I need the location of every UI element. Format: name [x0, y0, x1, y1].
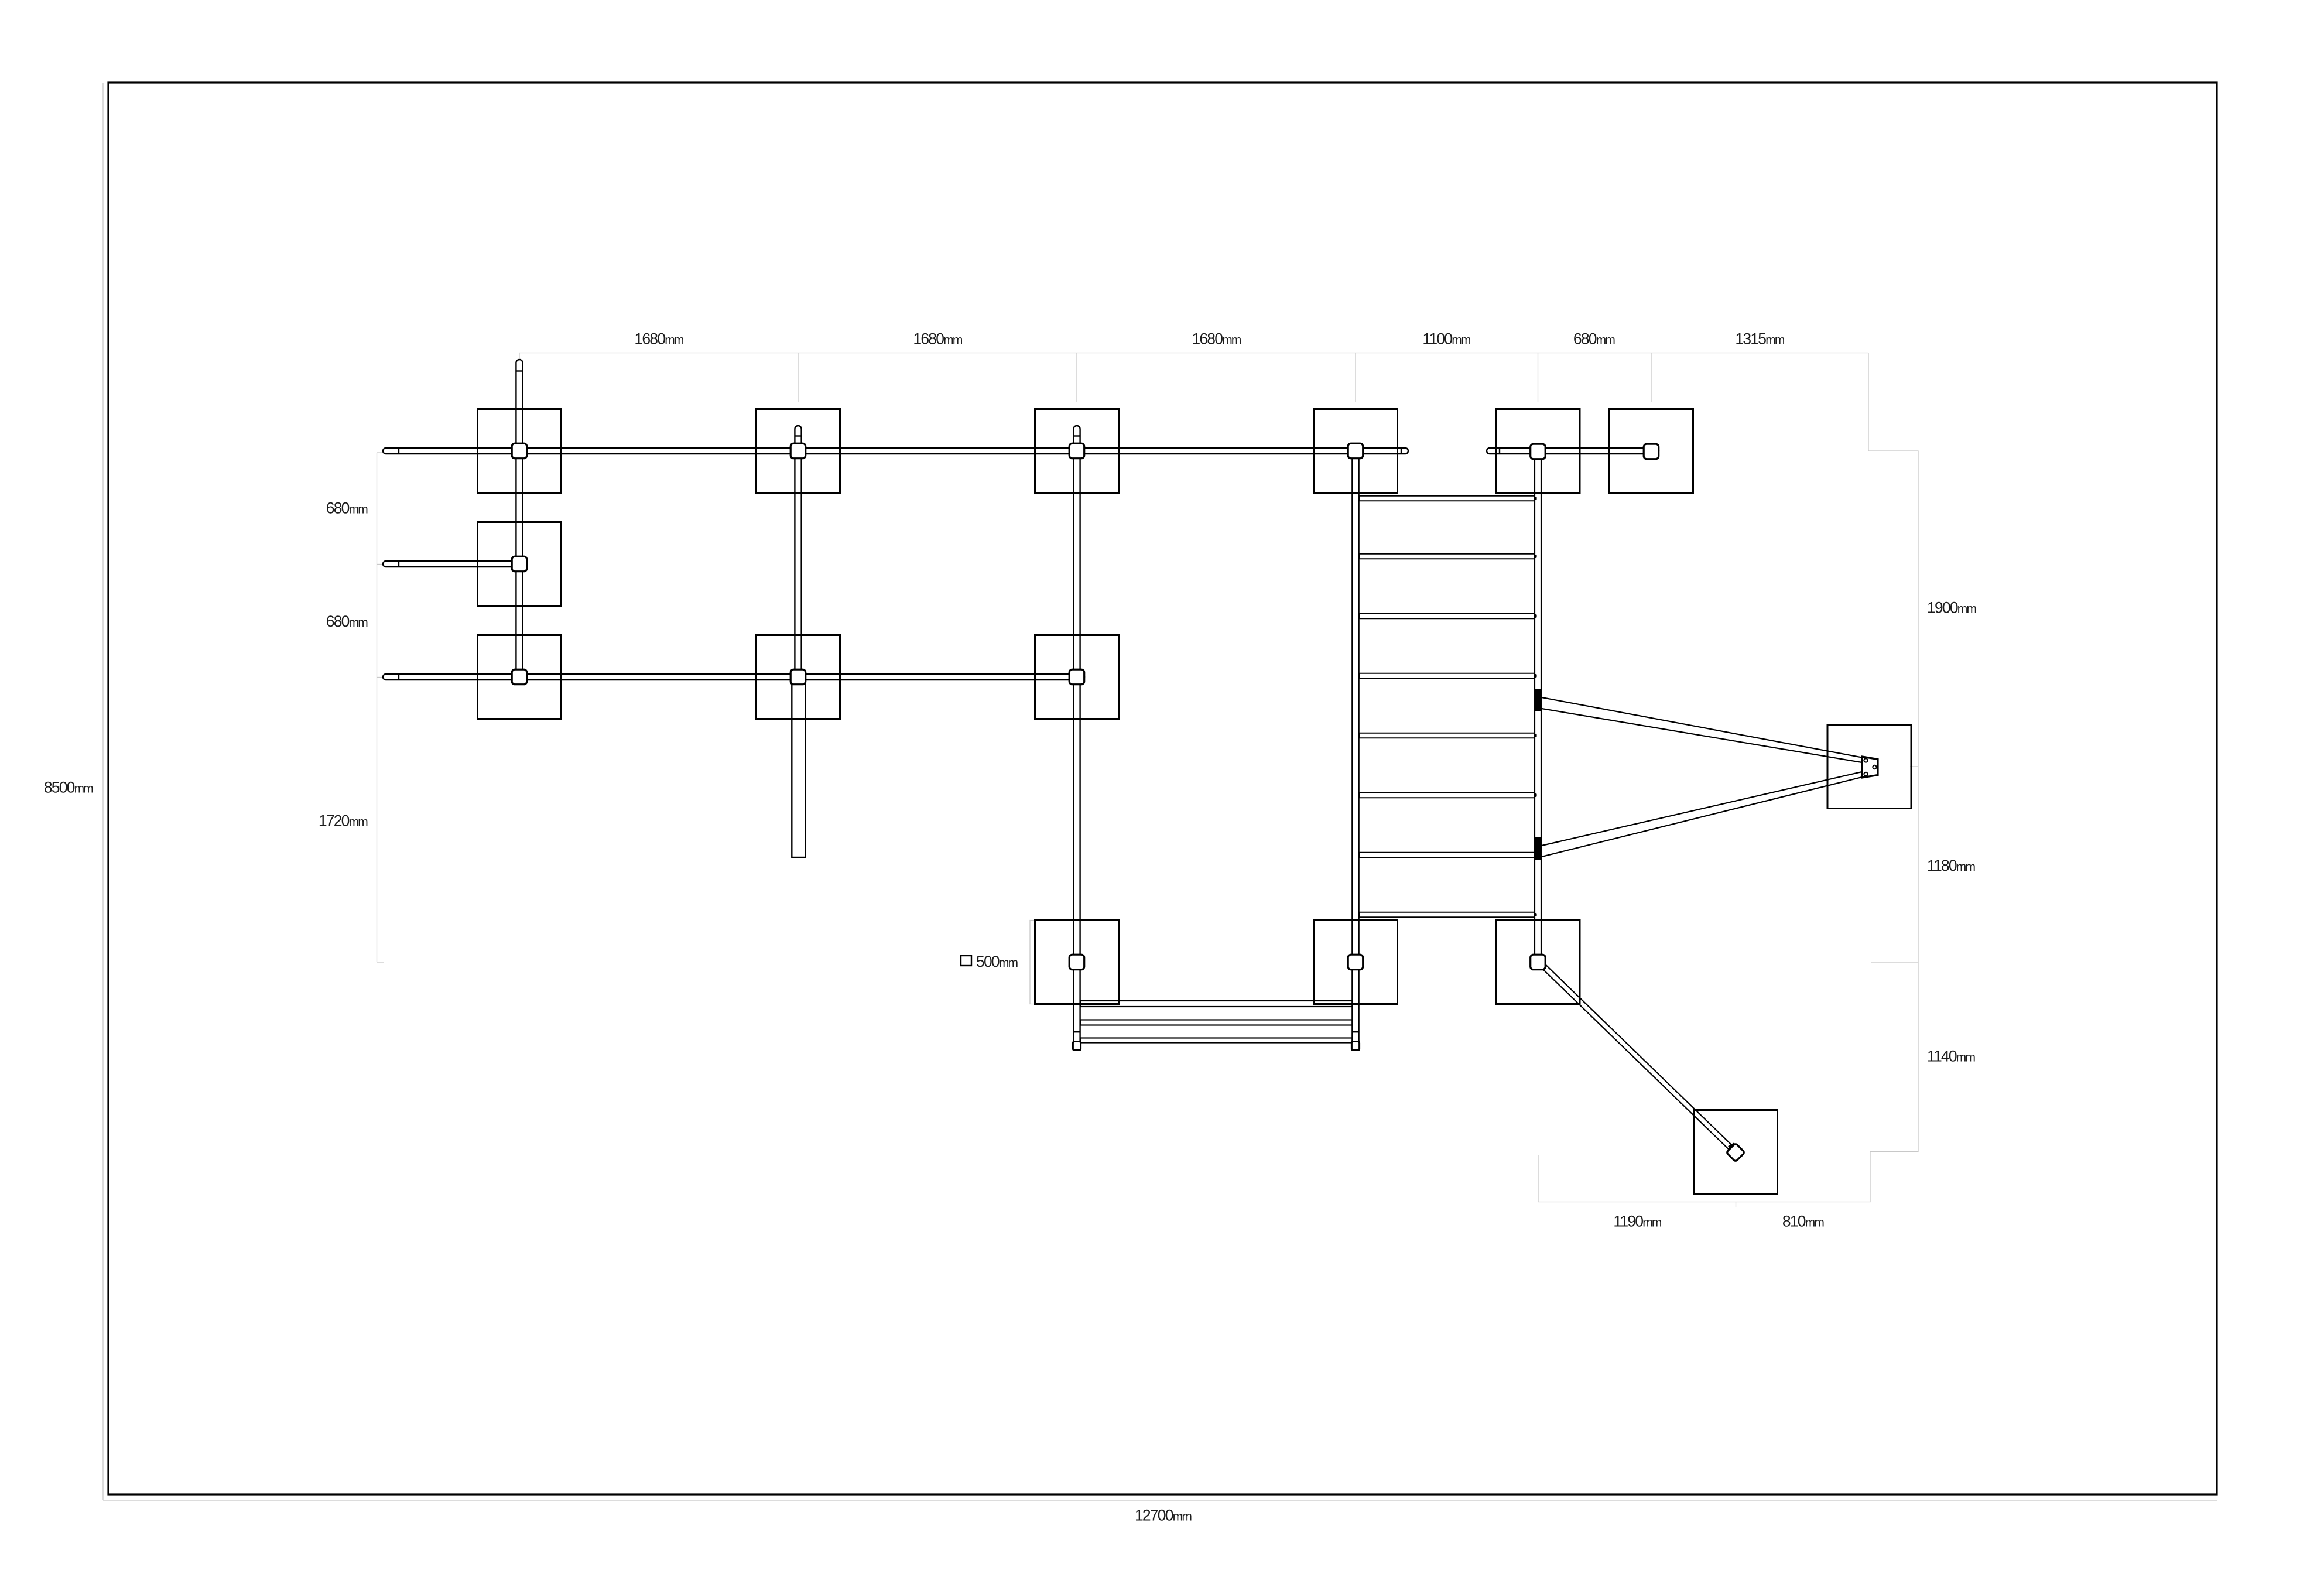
rung 2 end nub — [1535, 555, 1536, 558]
post E — [1531, 444, 1546, 459]
top tick col2 — [798, 353, 799, 403]
rung 3 end nub — [1535, 614, 1536, 618]
rung 1 end nub — [1535, 497, 1536, 500]
rail row1 right run — [1487, 448, 1659, 454]
seam row1 right cap — [1401, 448, 1402, 454]
post F — [1644, 444, 1659, 459]
rail col2 vertical — [795, 426, 801, 680]
pad B row1 col2 — [757, 409, 840, 493]
overall height dimension line 8500mm — [102, 83, 104, 1500]
rung 2 — [1359, 554, 1534, 559]
post K — [1069, 955, 1084, 970]
rail col4 vertical / ladder left stile — [1352, 448, 1358, 1045]
pad O diamond pad — [1694, 1110, 1778, 1194]
top tick col5 — [1538, 353, 1539, 403]
plate bolt 1 — [1864, 758, 1867, 762]
left tick row4 — [377, 962, 384, 963]
rung 7 end nub — [1535, 853, 1536, 857]
pad L row4 col4 — [1314, 921, 1398, 1004]
post J — [1069, 669, 1084, 685]
foot col3 — [1073, 1042, 1080, 1051]
brace upper line a — [1542, 697, 1862, 758]
brace clamp upper — [1535, 689, 1542, 711]
seam col1 cap — [516, 370, 522, 371]
rung 4 — [1359, 673, 1534, 679]
post G — [512, 556, 527, 572]
pad G row2 col1 — [478, 522, 562, 606]
post L — [1348, 955, 1363, 970]
diagonal line b — [1542, 968, 1730, 1150]
rail col3 vertical — [1073, 426, 1080, 1045]
rail seams — [399, 371, 1500, 1032]
pad A row1 col1 — [478, 409, 562, 493]
top tick col3 — [1076, 353, 1077, 403]
overall width dimension line 12700mm — [103, 1500, 2217, 1501]
plate bolt 2 — [1873, 765, 1876, 769]
pad E row1 col5 — [1496, 409, 1580, 493]
braces to plate — [1542, 697, 1862, 857]
pad I row3 col2 — [757, 635, 840, 719]
bottom tick left end — [1538, 1155, 1539, 1202]
seam row2 cap — [398, 561, 399, 567]
diagonal line a — [1545, 964, 1733, 1147]
post A — [512, 443, 527, 459]
rung 8 — [1359, 912, 1534, 918]
left tick row2 — [377, 564, 384, 565]
seam col3 foot — [1073, 1031, 1080, 1033]
PADS — [478, 409, 1912, 1194]
legend square symbol — [961, 956, 971, 966]
beam col2 lower wide — [792, 679, 805, 857]
rung 1 — [1359, 496, 1534, 501]
plate bolt 3 — [1864, 772, 1867, 776]
rung 4 end nub — [1535, 674, 1536, 678]
brace lower line a — [1542, 772, 1862, 846]
bar 3 — [1081, 1038, 1353, 1043]
rail col1 vertical — [516, 360, 522, 679]
RAILS — [383, 360, 1659, 1045]
LADDER rungs — [1359, 496, 1534, 918]
seam col4 foot — [1352, 1031, 1358, 1033]
post D — [1348, 443, 1363, 459]
pad K row4 col3 — [1035, 921, 1119, 1004]
post C — [1069, 443, 1084, 459]
post diamond — [1726, 1143, 1745, 1162]
rail col5 vertical / ladder right stile — [1535, 448, 1541, 965]
bottom parallel bars — [1081, 1001, 1353, 1043]
left tick row1 — [377, 452, 384, 453]
pad H row3 col1 — [478, 635, 562, 719]
POSTS — [512, 443, 1745, 1162]
top chain dimension line — [519, 353, 1868, 354]
post I — [790, 669, 806, 685]
pad J row3 col3 — [1035, 635, 1119, 719]
pad F row1 col6 — [1610, 409, 1693, 493]
rung 7 — [1359, 853, 1534, 858]
diagonal seam wedge — [1729, 1144, 1736, 1148]
right chain outline 1900/1180/1140 — [1538, 353, 1918, 1202]
rung 3 — [1359, 614, 1534, 619]
legend extension line at pad K — [1030, 921, 1035, 1004]
bar 2 — [1081, 1020, 1353, 1025]
seam row1 right-run cap — [1499, 448, 1500, 454]
pad N triangle-brace pad — [1827, 725, 1911, 809]
bar 1 — [1081, 1001, 1353, 1007]
plate on pad N — [1862, 757, 1878, 778]
diagonal shaft to diamond post — [1542, 964, 1734, 1151]
top tick col1 — [519, 353, 520, 358]
brace upper line b — [1542, 709, 1862, 762]
right tick triangle-pad row — [1910, 766, 1918, 767]
pad C row1 col3 — [1035, 409, 1119, 493]
bottom tick diamond pad — [1736, 1202, 1737, 1207]
top tick col4 — [1355, 353, 1356, 403]
rung 8 end nub — [1535, 913, 1536, 916]
top tick col6 — [1651, 353, 1652, 403]
rung 6 — [1359, 793, 1534, 798]
left chain dimension line 680/680/1720 — [377, 453, 378, 962]
post H — [512, 669, 527, 685]
rung 5 — [1359, 733, 1534, 738]
pad D row1 col4 — [1314, 409, 1398, 493]
foot col4 — [1351, 1042, 1359, 1051]
post B — [790, 443, 806, 459]
rung 6 end nub — [1535, 793, 1536, 797]
rung 5 end nub — [1535, 734, 1536, 737]
seam row1 left cap — [398, 448, 399, 454]
seam row3 cap — [398, 674, 399, 680]
post M — [1531, 955, 1546, 970]
rail row2 — [383, 561, 527, 567]
seam col2 cap — [795, 435, 801, 436]
rail row1 left run — [383, 448, 1408, 454]
seam col3 cap — [1073, 435, 1080, 436]
pad M row4 col5 — [1496, 921, 1580, 1004]
right tick row4 — [1871, 962, 1918, 963]
brace lower line b — [1542, 777, 1862, 857]
brace clamp lower — [1535, 837, 1542, 860]
left tick row3 — [377, 677, 384, 678]
rail row3 — [383, 674, 1084, 680]
